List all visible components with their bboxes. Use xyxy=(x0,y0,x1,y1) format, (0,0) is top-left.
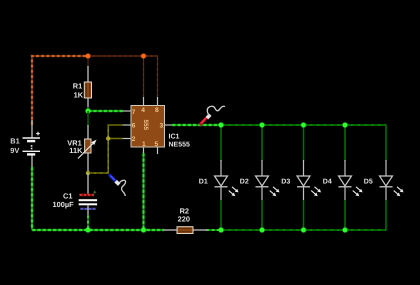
svg-text:IC1: IC1 xyxy=(169,134,180,141)
svg-text:6: 6 xyxy=(132,123,136,130)
junction node D1 bottom xyxy=(219,228,224,233)
svg-text:B1: B1 xyxy=(10,137,19,146)
wire pin1 to ground rail xyxy=(143,153,145,230)
svg-text:NE555: NE555 xyxy=(169,142,191,149)
wire R1 top stub xyxy=(87,56,89,67)
svg-text:555: 555 xyxy=(142,120,149,131)
wire battery negative down xyxy=(31,167,33,230)
svg-text:9V: 9V xyxy=(10,146,19,155)
svg-text:D1: D1 xyxy=(199,179,208,186)
wire C1 to ground rail xyxy=(87,215,89,230)
LED D1 xyxy=(215,125,239,230)
svg-text:D3: D3 xyxy=(281,179,290,186)
junction node D4 top xyxy=(343,123,348,128)
svg-text:1: 1 xyxy=(142,141,146,148)
junction node pin1 ground xyxy=(141,228,146,233)
LED D4 xyxy=(339,125,363,230)
junction node D2 bottom xyxy=(260,228,265,233)
svg-text:8: 8 xyxy=(155,107,159,114)
wire ground rail bottom left xyxy=(32,229,163,231)
junction node D2 top xyxy=(260,123,265,128)
probe red (voltage probe at pin3 output) xyxy=(200,106,225,125)
IC pin stubs xyxy=(123,97,173,154)
junction node R1/VR1/pin7 xyxy=(86,109,91,114)
junction node above R1 xyxy=(86,54,91,59)
LED D3 xyxy=(297,125,321,230)
junction node D3 bottom xyxy=(301,228,306,233)
svg-text:220: 220 xyxy=(178,214,190,223)
LED D2 xyxy=(256,125,280,230)
node VR1/C1/probe olive junction xyxy=(86,171,90,175)
wire LED bottom rail xyxy=(221,229,386,231)
svg-text:R1: R1 xyxy=(73,82,82,91)
wire V+ dark segment R1 junction to pin8 corner xyxy=(88,55,158,57)
battery B1 xyxy=(23,120,41,169)
variable resistor VR1 xyxy=(78,125,97,172)
wire olive junction to pins 2/6 xyxy=(88,125,123,173)
wire R1 junction down to VR1 xyxy=(87,111,89,126)
svg-text:5: 5 xyxy=(155,141,159,148)
IC IC1 NE555 body xyxy=(131,106,165,149)
svg-text:11K: 11K xyxy=(69,146,83,155)
svg-text:100µF: 100µF xyxy=(53,200,75,209)
resistor R1 xyxy=(84,66,91,107)
capacitor C1 xyxy=(79,173,97,216)
junction node D4 bottom xyxy=(343,228,348,233)
LED D5 xyxy=(380,125,404,230)
junction node C1 ground xyxy=(86,228,91,233)
junction node D1 top xyxy=(219,123,224,128)
svg-text:7: 7 xyxy=(132,109,136,116)
junction node pin2/pin6 xyxy=(106,136,110,140)
svg-text:4: 4 xyxy=(141,107,145,114)
svg-text:3: 3 xyxy=(160,123,164,130)
wire pin4 drop xyxy=(143,56,145,97)
probe blue (voltage probe at pins 2/6 node) xyxy=(109,175,125,196)
svg-text:D5: D5 xyxy=(364,179,373,186)
wire R1 bottom to pin7 xyxy=(88,107,123,111)
resistor R2 xyxy=(163,227,207,234)
svg-text:2: 2 xyxy=(132,136,136,143)
wire pin3 output to D1 top xyxy=(172,124,221,126)
junction node D3 top xyxy=(301,123,306,128)
wire R2 right to D1 bottom junction xyxy=(206,229,221,231)
wire V+ top horizontal bright segment battery to R1 xyxy=(31,55,88,124)
junction node above pin4 xyxy=(141,54,146,59)
wire pin8 drop xyxy=(157,56,159,97)
svg-text:D4: D4 xyxy=(323,179,332,186)
wire LED top rail xyxy=(221,124,386,126)
svg-text:1K: 1K xyxy=(74,90,84,99)
svg-text:D2: D2 xyxy=(240,179,249,186)
